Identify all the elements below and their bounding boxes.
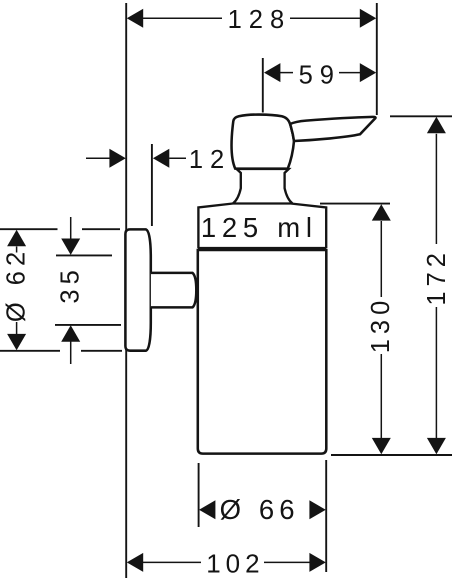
dimension 35 (vertical) xyxy=(57,217,85,364)
extension line left end of 59 dim xyxy=(262,58,264,113)
wall plate (side view) xyxy=(125,229,150,350)
svg-text:59: 59 xyxy=(299,61,341,89)
dimension 59 xyxy=(264,61,376,89)
extension line bottle bottom right xyxy=(331,454,452,456)
dimension 172 (vertical, far right) xyxy=(423,117,451,455)
svg-text:35: 35 xyxy=(57,265,85,303)
bottle body xyxy=(198,250,326,454)
extension line bottom of dia62 dim xyxy=(0,350,122,352)
extension line right of dia66/102 dims xyxy=(325,460,327,572)
svg-text:172: 172 xyxy=(423,248,451,306)
svg-text:130: 130 xyxy=(367,296,395,354)
dimension 130 (vertical, right) xyxy=(367,204,395,454)
mounting arm xyxy=(151,273,196,308)
dimension 128 xyxy=(127,6,376,34)
extension line top of 130 dim xyxy=(320,203,390,205)
dimension dia 66 xyxy=(199,494,326,525)
svg-text:128: 128 xyxy=(228,6,292,34)
pump knob body xyxy=(231,115,294,169)
collar thick bottom edge xyxy=(198,247,327,251)
extension line right end of 12 dim xyxy=(151,144,153,226)
dimension dia 62 (vertical, left) xyxy=(2,230,30,350)
extension line top of dia62 dim xyxy=(0,228,120,230)
dimension 102 xyxy=(127,548,326,578)
svg-text:12: 12 xyxy=(189,146,231,174)
wall mounting plane extension line xyxy=(125,3,127,578)
spout lever xyxy=(290,117,375,141)
extension line bottom of 35 dim xyxy=(55,324,121,326)
svg-text:Ø 62: Ø 62 xyxy=(2,247,30,322)
pump neck and shoulder flare xyxy=(233,169,293,204)
holder collar / lid (125 ml band) xyxy=(198,204,326,249)
extension line left of dia66 dim xyxy=(198,463,200,527)
extension line top of 35 dim xyxy=(56,254,112,256)
right extension line (128/59 dims) xyxy=(376,3,378,115)
extension line spout tip / top of 172 dim xyxy=(390,115,452,117)
dimension 12 xyxy=(86,146,231,174)
svg-text:125 ml: 125 ml xyxy=(201,212,318,243)
svg-text:Ø 66: Ø 66 xyxy=(220,494,300,525)
svg-text:102: 102 xyxy=(206,548,264,578)
